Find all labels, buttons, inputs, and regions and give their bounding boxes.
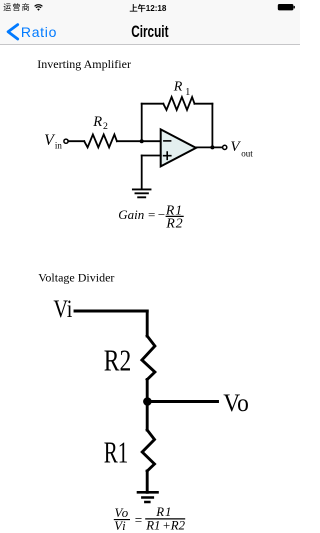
svg-text:R2: R2: [104, 343, 132, 378]
resistor R2 (input): [84, 135, 117, 148]
svg-text:out: out: [241, 149, 253, 159]
formula fraction bar left: [114, 519, 130, 521]
svg-text:=: =: [148, 207, 155, 222]
svg-text:R2: R2: [170, 518, 186, 532]
svg-text:R1: R1: [155, 505, 172, 519]
plus sign at non-inverting input: [164, 152, 171, 159]
ground wire vertical: [141, 156, 143, 189]
svg-text:Inverting Amplifier: Inverting Amplifier: [37, 57, 131, 71]
svg-text:1: 1: [185, 87, 190, 98]
ground symbol (divider): [138, 492, 158, 502]
svg-text:in: in: [55, 141, 63, 151]
wire R1 to ground: [146, 471, 149, 492]
svg-text:Gain: Gain: [118, 207, 144, 222]
svg-text:+: +: [163, 518, 170, 532]
wire plus input: [142, 155, 161, 157]
carrier label 运营商: [3, 4, 31, 12]
time 12:18: [0, 5, 298, 13]
svg-text:Vo: Vo: [223, 390, 249, 417]
svg-text:R1: R1: [145, 518, 160, 532]
output wire: [196, 146, 223, 148]
wire R2 to inverting input (node A): [117, 140, 161, 142]
resistor R2 (divider top): [142, 336, 155, 380]
back label Ratio: [21, 25, 57, 39]
svg-text:2: 2: [103, 121, 108, 132]
svg-text:R1: R1: [104, 435, 129, 470]
resistor R1 (feedback): [163, 97, 194, 110]
svg-text:=: =: [135, 513, 142, 528]
navigation bar: [0, 20, 300, 45]
feedback wire top right: [195, 103, 213, 105]
input terminal circle Vin: [64, 139, 68, 143]
status bar: [0, 0, 300, 20]
wifi icon: [34, 4, 43, 11]
svg-text:Voltage Divider: Voltage Divider: [38, 271, 114, 285]
wire node to Vo label: [147, 400, 217, 403]
top vertical wire: [146, 311, 149, 336]
battery icon: [277, 3, 297, 13]
feedback wire top left: [142, 103, 164, 105]
svg-text:Vi: Vi: [53, 296, 72, 323]
svg-text:R: R: [92, 114, 102, 130]
resistor R1 (divider bottom): [142, 430, 154, 471]
title Circuit: [43, 24, 256, 41]
output terminal circle Vout: [223, 145, 227, 149]
gain formula: Gain = -R1/R2: [118, 202, 183, 230]
wire Vi top horizontal: [75, 310, 147, 313]
gain fraction bar: [166, 215, 184, 217]
output junction dot: [210, 145, 214, 149]
feedback wire left vertical: [141, 104, 143, 142]
svg-text:V: V: [230, 139, 241, 155]
back chevron: [0, 22, 22, 42]
wire input to R2: [68, 140, 84, 142]
junction node A dot: [140, 139, 144, 143]
svg-text:R2: R2: [165, 216, 183, 231]
wire R2 to node Vo: [146, 380, 149, 402]
feedback wire right vertical: [211, 104, 213, 148]
minus sign at inverting input: [164, 140, 171, 142]
svg-text:R: R: [173, 80, 183, 95]
ground symbol (op-amp): [133, 189, 151, 197]
node Vo junction dot: [143, 397, 152, 406]
divider formula: Vo/Vi = R1/(R1+R2): [114, 505, 185, 533]
svg-text:−: −: [158, 207, 165, 222]
formula fraction bar right: [145, 518, 185, 520]
svg-text:Vi: Vi: [114, 519, 126, 533]
wire node down to R1: [146, 402, 149, 431]
op-amp U1 triangle: [161, 129, 196, 166]
